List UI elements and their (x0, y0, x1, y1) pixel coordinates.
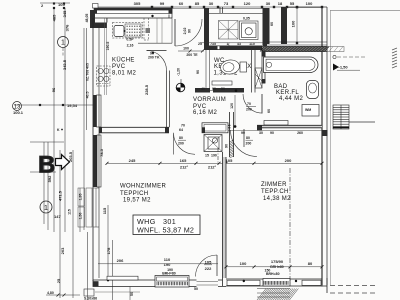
kitchen top wall band (94, 8, 172, 14)
svg-text:40.5: 40.5 (86, 92, 90, 99)
shower square (240, 21, 259, 40)
svg-text:70: 70 (247, 102, 251, 106)
svg-text:55: 55 (290, 1, 295, 6)
zimmer door leaf (243, 129, 245, 147)
svg-text:1,95: 1,95 (79, 194, 83, 201)
svg-text:KÜCHE: KÜCHE (112, 57, 135, 64)
svg-text:70: 70 (181, 124, 185, 128)
svg-text:60: 60 (179, 1, 184, 6)
right edge hatch marks (392, 48, 397, 68)
svg-text:165: 165 (180, 158, 187, 163)
zimmer left wall (223, 157, 227, 278)
svg-text:B: B (38, 152, 55, 179)
kitchen NE boundary (138, 18, 172, 43)
svg-text:1: 1 (44, 203, 48, 212)
svg-text:64: 64 (179, 128, 183, 132)
svg-text:105: 105 (58, 2, 65, 7)
WC radiator (212, 81, 232, 85)
left dimension lines (14, 3, 113, 300)
wall right of shaft (230, 112, 234, 157)
svg-text:212°: 212° (208, 165, 217, 170)
svg-text:190: 190 (211, 154, 217, 158)
svg-text:BRH=80: BRH=80 (162, 272, 176, 276)
svg-text:48,05: 48,05 (85, 14, 89, 23)
section arrow (56, 155, 70, 170)
svg-text:0Z.T08 405: 0Z.T08 405 (86, 63, 90, 81)
svg-text:471.5: 471.5 (58, 190, 63, 201)
svg-text:25: 25 (56, 278, 61, 283)
svg-text:78.5: 78.5 (99, 148, 104, 157)
svg-text:260: 260 (297, 131, 303, 135)
bottom right corner (322, 278, 327, 293)
svg-text:50: 50 (130, 292, 134, 296)
loggia top edge (287, 6, 322, 8)
svg-text:TEPPICH: TEPPICH (120, 191, 148, 197)
svg-text:90: 90 (188, 29, 192, 33)
svg-text:0.5P: 0.5P (126, 38, 134, 42)
svg-text:30: 30 (209, 1, 214, 6)
svg-text:1,50: 1,50 (79, 213, 83, 220)
svg-text:40: 40 (201, 87, 205, 91)
zimmer door arc (231, 130, 258, 157)
svg-text:245: 245 (129, 158, 136, 163)
svg-text:30: 30 (266, 1, 271, 6)
svg-text:4,80: 4,80 (47, 291, 54, 295)
sink drainer grid (125, 24, 141, 37)
axis circle 13 (13, 102, 22, 111)
svg-text:305: 305 (134, 1, 141, 6)
kitchen door arc (147, 51, 167, 71)
svg-text:115: 115 (102, 207, 107, 214)
svg-text:-1,20: -1,20 (177, 68, 181, 76)
svg-text:90: 90 (225, 144, 229, 148)
svg-text:90: 90 (196, 70, 200, 74)
svg-text:200 TK: 200 TK (148, 56, 160, 60)
balcony hatch bottom (257, 289, 298, 300)
bottom wall zimmer (226, 279, 327, 286)
kitchen interior wall lines (105, 18, 107, 95)
svg-text:80: 80 (246, 136, 250, 140)
washroom right wall (263, 8, 268, 46)
small box bottom-left (84, 289, 94, 296)
svg-text:4,44 M2: 4,44 M2 (279, 96, 303, 102)
window zimmer (263, 279, 290, 287)
svg-text:110: 110 (249, 42, 255, 46)
svg-text:120: 120 (244, 1, 251, 6)
top dimension line (95, 6, 322, 8)
svg-text:735: 735 (210, 42, 216, 46)
entrance door leaf (174, 19, 176, 46)
WC right wall (252, 50, 256, 93)
bottom wall wohnzimmer (93, 280, 155, 287)
svg-text:BRH=80: BRH=80 (266, 272, 280, 276)
svg-text:14,38 M2: 14,38 M2 (263, 196, 291, 202)
WC bottom wall (195, 88, 210, 93)
radiator wohnzimmer (107, 276, 138, 280)
svg-text:WNFL. 53,87 M2: WNFL. 53,87 M2 (137, 226, 194, 235)
svg-text:96: 96 (51, 87, 56, 92)
hatch on shaft right wall (230, 140, 234, 158)
survey point symbol (176, 83, 185, 92)
svg-text:120: 120 (230, 103, 234, 109)
svg-text:190.5: 190.5 (106, 42, 110, 51)
svg-text:60: 60 (270, 22, 274, 26)
svg-text:WOHNZIMMER: WOHNZIMMER (120, 184, 166, 190)
svg-text:90: 90 (212, 87, 216, 91)
svg-text:19,54: 19,54 (67, 103, 78, 108)
svg-text:19,57 M2: 19,57 M2 (123, 198, 151, 204)
corner top box (93, 4, 99, 9)
wohnzimmer top wall (99, 127, 169, 133)
kitchen counter dashed (113, 23, 143, 39)
svg-text:15: 15 (205, 154, 209, 158)
window annotation boxes left wall (78, 188, 92, 227)
svg-text:1: 1 (61, 40, 65, 47)
shaft walls top-right (267, 8, 270, 44)
WC left wall (204, 8, 209, 50)
shaft between WC and BAD (255, 68, 262, 88)
svg-text:90: 90 (270, 131, 274, 135)
svg-text:30: 30 (259, 131, 263, 135)
WHG label box (133, 215, 200, 235)
top-left corner wall (90, 10, 107, 28)
svg-text:200: 200 (178, 142, 184, 146)
svg-text:18: 18 (278, 1, 283, 6)
svg-text:105: 105 (226, 158, 233, 163)
dim line under washroom (200, 42, 264, 44)
svg-text:100.1: 100.1 (13, 110, 24, 115)
axis circle 1 bottom (40, 201, 52, 213)
wohnzimmer window black bar (93, 135, 97, 187)
svg-text:203: 203 (60, 247, 65, 254)
svg-text:178: 178 (106, 247, 111, 254)
svg-text:200: 200 (246, 108, 252, 112)
zimmer top wall (257, 125, 322, 128)
WC room side lines (206, 50, 210, 88)
sink bowl (114, 26, 124, 37)
svg-text:80: 80 (308, 261, 313, 266)
kitchen window black bar (93, 95, 97, 127)
svg-text:105: 105 (205, 260, 212, 265)
kitchen right wall (167, 71, 170, 128)
svg-text:BRH=80: BRH=80 (270, 265, 284, 269)
svg-text:PVC: PVC (112, 64, 126, 70)
svg-text:ZIMMER: ZIMMER (261, 182, 287, 188)
svg-text:100: 100 (183, 47, 189, 51)
svg-text:6,16 M2: 6,16 M2 (193, 110, 217, 116)
svg-text:90: 90 (241, 131, 245, 135)
BAD north hatched wall (267, 42, 327, 45)
long dim line y163 (107, 162, 322, 164)
plumbing ticks (220, 7, 223, 13)
svg-text:25: 25 (198, 42, 202, 46)
vertical dim at x235 (234, 95, 236, 125)
section dash-dot lines (217, 148, 219, 163)
fridge dashed lines (144, 18, 149, 40)
vorraum cabinet (202, 123, 228, 133)
svg-text:2,02: 2,02 (183, 28, 187, 35)
svg-text:99: 99 (160, 1, 165, 6)
vorraum dim marks (200, 90, 236, 92)
svg-text:212°: 212° (180, 165, 189, 170)
bottom dim texts (98, 263, 218, 265)
svg-text:0,35: 0,35 (243, 17, 250, 21)
WC toilet (220, 59, 241, 76)
balcony door arc (196, 255, 218, 277)
svg-text:228.5: 228.5 (144, 84, 149, 95)
svg-text:80: 80 (179, 136, 183, 140)
BAD left wall (262, 51, 265, 84)
svg-text:200: 200 (246, 142, 252, 146)
radiator zimmer left (227, 280, 260, 285)
svg-text:175/90: 175/90 (271, 259, 284, 264)
svg-text:43: 43 (237, 42, 241, 46)
svg-text:60: 60 (267, 109, 271, 113)
left wall window zone lines (94, 188, 100, 227)
right exterior wall (321, 7, 323, 285)
loggia dim line (296, 7, 298, 43)
dim under zimmer wall (226, 130, 322, 132)
svg-text:376: 376 (65, 24, 70, 31)
svg-text:100: 100 (291, 20, 296, 27)
svg-text:TEPP.CH: TEPP.CH (261, 189, 289, 195)
svg-text:345: 345 (62, 10, 67, 17)
dashed lines to right (330, 286, 378, 294)
entrance door arc (175, 19, 202, 46)
svg-text:206: 206 (117, 258, 124, 263)
svg-text:8,01 M2: 8,01 M2 (112, 71, 136, 77)
svg-text:85: 85 (195, 1, 200, 6)
bathtub (264, 57, 319, 73)
svg-text:50: 50 (194, 287, 198, 291)
svg-text:2,16: 2,16 (127, 44, 134, 48)
svg-text:115: 115 (68, 209, 72, 215)
washroom bottom wall (204, 46, 262, 51)
BAD toilet (307, 81, 319, 99)
svg-text:343.5: 343.5 (62, 59, 67, 70)
stove dashed box + burners (97, 66, 111, 86)
svg-text:200: 200 (285, 158, 292, 163)
washbasin (219, 21, 239, 40)
svg-text:200 TE: 200 TE (186, 53, 198, 57)
svg-text:WM: WM (305, 108, 311, 112)
svg-text:100: 100 (306, 1, 313, 6)
svg-text:485: 485 (52, 14, 57, 21)
svg-text:100: 100 (240, 261, 247, 266)
wohnzimmer door arc (174, 133, 196, 155)
shaft box (204, 135, 222, 152)
washing machine (302, 105, 319, 117)
svg-text:-1,50: -1,50 (339, 65, 349, 70)
radiator zimmer right (302, 280, 321, 285)
svg-text:190: 190 (164, 262, 171, 267)
washroom top lines (209, 9, 263, 14)
left exterior wall (92, 18, 94, 281)
svg-text:222: 222 (205, 266, 212, 271)
BAD door leaf+arc (261, 94, 263, 114)
svg-text:203.5: 203.5 (68, 151, 73, 162)
svg-text:S.10x86: S.10x86 (84, 297, 97, 300)
right outside top line (330, 10, 400, 12)
BAD bottom radiator (264, 121, 288, 126)
entrance opening lines (172, 8, 204, 10)
window wohnzimmer (155, 276, 189, 288)
svg-text:13: 13 (14, 105, 21, 111)
svg-text:VORRAUM: VORRAUM (193, 97, 226, 103)
svg-text:73: 73 (224, 1, 229, 6)
axis circle 1 top (58, 37, 69, 48)
svg-text:147: 147 (54, 214, 61, 219)
level marker -1.50 (333, 55, 336, 58)
svg-text:50: 50 (221, 87, 225, 91)
outside stairs (333, 105, 349, 129)
